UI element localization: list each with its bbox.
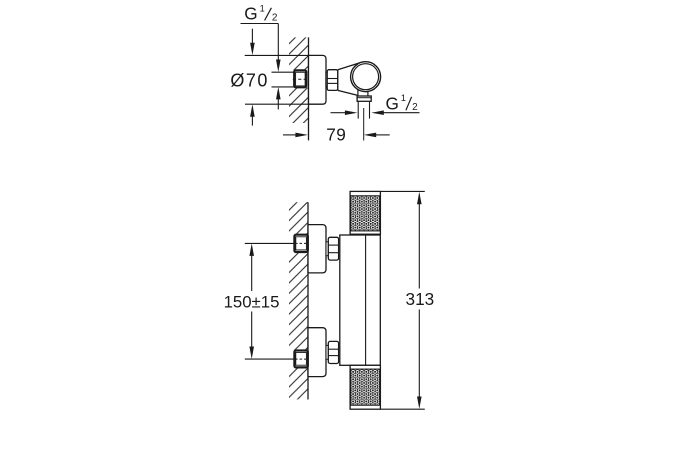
svg-text:1: 1 bbox=[260, 4, 265, 14]
svg-text:2: 2 bbox=[272, 13, 278, 24]
svg-text:313: 313 bbox=[406, 289, 435, 309]
svg-text:G: G bbox=[386, 93, 399, 113]
svg-text:Ø70: Ø70 bbox=[230, 70, 269, 90]
svg-text:150±15: 150±15 bbox=[224, 292, 280, 311]
svg-text:G: G bbox=[244, 4, 257, 24]
svg-text:79: 79 bbox=[326, 125, 346, 145]
svg-text:2: 2 bbox=[412, 102, 418, 113]
svg-text:1: 1 bbox=[401, 93, 406, 103]
